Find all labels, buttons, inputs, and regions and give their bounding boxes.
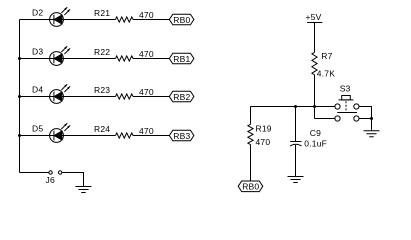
pushbutton S3	[335, 84, 359, 121]
svg-text:R7: R7	[321, 51, 332, 61]
connector J6	[46, 171, 62, 185]
wire: node to S3 bottom-left pin	[315, 118, 335, 120]
svg-text:RB0: RB0	[242, 182, 259, 192]
wire: R24 to net tag RB3	[133, 135, 169, 137]
LED D5	[32, 123, 70, 142]
wire: R7 to node rail and S3 pins	[314, 75, 316, 119]
wire: R22 to net tag RB1	[133, 58, 169, 60]
wire: C9 to ground	[295, 145, 297, 177]
wire: row D4 from bus through LED to resistor R23	[20, 96, 116, 98]
wire: row D5 from bus through LED to resistor R24	[20, 135, 116, 137]
svg-text:470: 470	[139, 10, 154, 20]
svg-text:D3: D3	[32, 47, 43, 57]
net label RB3	[169, 130, 194, 141]
wire: node rail to S3 top-left pin	[251, 106, 335, 108]
resistor R23 470	[94, 85, 154, 99]
wire: bus to connector J6 pin 1	[20, 172, 49, 174]
svg-text:R21: R21	[94, 8, 110, 18]
svg-text:RB0: RB0	[173, 15, 190, 25]
wire: rail corner to R19	[250, 107, 252, 125]
wire: rail to C9	[295, 107, 297, 142]
junction: bus-D3 row	[18, 57, 21, 60]
capacitor C9 0.1uF	[290, 128, 327, 149]
resistor R19 470	[248, 123, 272, 147]
LED D4	[32, 84, 70, 103]
svg-text:4.7K: 4.7K	[317, 69, 335, 79]
wire: LED anode bus vertical	[19, 20, 21, 173]
junction: S3 right pins join	[370, 117, 373, 120]
svg-text:R19: R19	[256, 123, 272, 133]
svg-text:D2: D2	[32, 8, 43, 18]
svg-text:+5V: +5V	[306, 12, 322, 22]
wire: R19 to net tag RB0	[250, 145, 252, 182]
svg-text:470: 470	[139, 126, 154, 136]
junction: C9-rail	[294, 105, 297, 108]
svg-text:D4: D4	[32, 85, 43, 95]
wire: +5V to R7	[314, 23, 316, 53]
svg-text:0.1uF: 0.1uF	[304, 139, 327, 149]
resistor R21 470	[94, 8, 154, 22]
net label RB1	[169, 53, 194, 64]
svg-text:R22: R22	[94, 47, 110, 57]
wire: S3 bottom-right pin to ground drop	[359, 118, 372, 120]
wire: row D2 from bus through LED to resistor R21	[20, 19, 116, 21]
svg-text:470: 470	[139, 87, 154, 97]
net label RB0 (bottom)	[238, 181, 263, 192]
svg-text:RB1: RB1	[173, 54, 190, 64]
net label RB2	[169, 91, 194, 102]
svg-text:470: 470	[256, 137, 271, 147]
wire: S3 top-right pin to ground drop	[359, 107, 372, 131]
resistor R22 470	[94, 47, 154, 61]
svg-text:C9: C9	[310, 128, 321, 138]
svg-text:RB2: RB2	[173, 92, 190, 102]
wire: R23 to net tag RB2	[133, 96, 169, 98]
svg-text:R24: R24	[94, 124, 110, 134]
svg-text:R23: R23	[94, 85, 110, 95]
resistor R7 4.7K	[312, 51, 335, 79]
ground (C9)	[288, 177, 304, 183]
svg-text:J6: J6	[46, 175, 55, 185]
junction: R7-rail	[313, 105, 316, 108]
ground (S3)	[364, 131, 380, 137]
LED D2	[32, 7, 70, 26]
wire: row D3 from bus through LED to resistor R22	[20, 58, 116, 60]
power +5V	[306, 12, 323, 22]
svg-text:D5: D5	[32, 124, 43, 134]
junction: bus-D5 row	[18, 134, 21, 137]
LED D3	[32, 46, 70, 65]
resistor R24 470	[94, 124, 154, 138]
junction: bus-D4 row	[18, 95, 21, 98]
wire: J6 pin 2 to ground	[62, 173, 84, 187]
svg-text:S3: S3	[340, 84, 351, 94]
wire: R21 to net tag RB0	[133, 19, 169, 21]
svg-text:470: 470	[139, 49, 154, 59]
net label RB0	[169, 14, 194, 25]
ground (J6)	[76, 187, 92, 193]
svg-text:RB3: RB3	[173, 131, 190, 141]
